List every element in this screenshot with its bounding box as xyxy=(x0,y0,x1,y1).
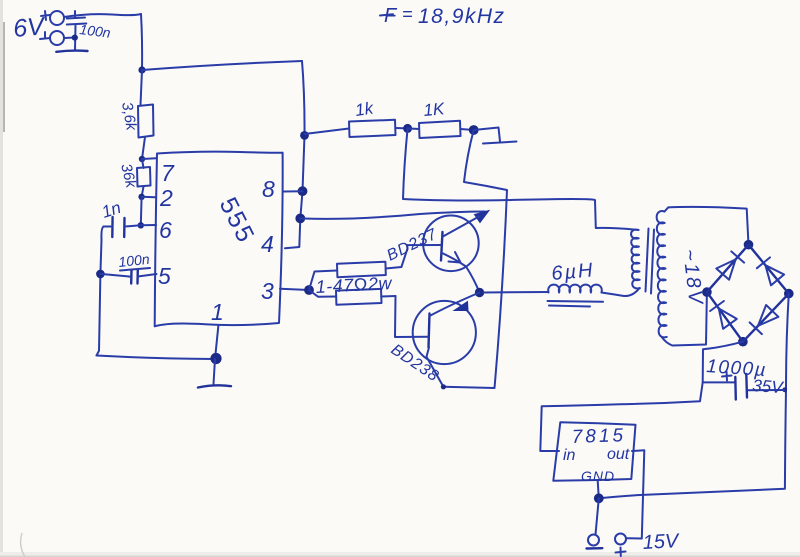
svg-text:6µH: 6µH xyxy=(551,259,596,285)
wire node J2 down long vertical to BD238 collector xyxy=(443,130,507,388)
svg-text:F: F xyxy=(384,5,398,27)
svg-text:100n: 100n xyxy=(118,251,151,270)
svg-text:15V: 15V xyxy=(642,530,680,554)
svg-text:35V: 35V xyxy=(752,376,785,397)
capacitor C3 100n plates xyxy=(131,270,138,284)
battery + terminal xyxy=(50,11,64,25)
battery minus (perp) sign xyxy=(40,32,50,39)
svg-text:1-47Ω2w: 1-47Ω2w xyxy=(315,273,393,297)
transistor Q2 BD238 circle xyxy=(413,301,476,364)
wire pin1 stem xyxy=(215,325,218,359)
wire node B to R2 xyxy=(142,159,144,168)
wire node N to ground terminal xyxy=(596,498,599,534)
wire pin6 xyxy=(141,224,156,226)
Q1 emitter arrow xyxy=(449,252,461,263)
Q1 emitter line xyxy=(442,253,480,293)
wire battery- to capacitor xyxy=(65,37,75,40)
wire secondary top to bridge top xyxy=(665,207,749,245)
C4 plus sign xyxy=(722,372,732,381)
resistor R5 bottom body xyxy=(336,289,382,305)
diode D2 arm top-right xyxy=(749,245,789,294)
wire pin8 xyxy=(284,190,303,192)
wire node J1 to R4 xyxy=(408,127,419,130)
diode D3 arm bottom-left xyxy=(707,292,743,342)
node E junction pin5 rail xyxy=(96,270,105,279)
wire bridge right down to cap junction and GND rail xyxy=(600,294,789,499)
L1 underline xyxy=(548,301,604,307)
diode D1 arm top-left xyxy=(707,245,749,292)
arrow head collector Q1 xyxy=(475,211,490,223)
svg-text:7815: 7815 xyxy=(571,425,626,448)
wire GND pin down xyxy=(598,481,599,499)
IC U1 555 body xyxy=(155,152,283,327)
battery - terminal xyxy=(50,31,64,45)
wire node L to inductor xyxy=(484,291,549,294)
stub wire right of J2 xyxy=(474,128,517,144)
wire node C to node D xyxy=(140,197,143,226)
R5 right links xyxy=(381,249,407,297)
Q2 emitter line xyxy=(430,293,480,317)
wire secondary bottom to bridge left xyxy=(662,292,707,345)
node J1 junction xyxy=(403,124,412,133)
title F = 18,9 kHz xyxy=(380,4,506,28)
svg-text:2: 2 xyxy=(159,185,173,211)
node B junction xyxy=(139,156,145,162)
node C junction pin2 xyxy=(138,194,144,200)
svg-text:1K: 1K xyxy=(423,99,446,120)
wire cap left down and to regulator in xyxy=(540,382,702,451)
svg-text:out: out xyxy=(607,446,630,463)
output + terminal xyxy=(615,534,626,545)
node D junction pin6 xyxy=(138,222,144,228)
node K junction pin3 xyxy=(304,285,314,295)
resistor R4 1k body xyxy=(419,121,461,138)
node M cap+ junction xyxy=(782,387,787,392)
wire bridge bottom to cap left xyxy=(703,342,743,383)
resistor R2 36k body xyxy=(137,167,151,187)
wire R4 to node J2 xyxy=(461,129,474,130)
wire R2 to node C xyxy=(142,187,144,197)
inductor L1 6uH coil xyxy=(548,285,602,293)
wire bottom rail to ground node xyxy=(97,356,216,360)
V+ bus vertical xyxy=(285,61,305,248)
node right xyxy=(784,289,794,299)
plus sign under + terminal xyxy=(616,548,626,557)
Q1 collector line xyxy=(442,217,479,238)
transformer T1 secondary coil xyxy=(657,211,667,337)
node F ground junction xyxy=(210,353,221,364)
svg-text:8: 8 xyxy=(262,176,275,202)
svg-text:in: in xyxy=(563,447,576,464)
wire node A down to R1 xyxy=(141,70,143,105)
transformer core lines xyxy=(646,229,655,294)
Q2 collector line xyxy=(427,347,444,387)
node left xyxy=(702,287,712,297)
wire node I to BD237 collector xyxy=(300,212,485,219)
wire node F to ground xyxy=(214,359,216,384)
node I junction pin4 xyxy=(295,214,305,224)
wire battery+ to top corner xyxy=(64,14,141,17)
ground bar under terminal xyxy=(587,547,603,550)
output ground terminal xyxy=(588,535,599,546)
capacitor C4 1000u plates xyxy=(735,374,747,400)
C4 right lead xyxy=(748,389,785,391)
wire inductor to primary bottom xyxy=(602,288,640,296)
resistor R5 top body 1-47ohm xyxy=(337,262,386,278)
Q1 base bar xyxy=(441,232,443,260)
resistor R3 1k body xyxy=(349,120,396,137)
Q1 base wire xyxy=(407,245,442,249)
Q2 base wire xyxy=(395,296,429,337)
transformer T1 primary coil xyxy=(631,230,640,289)
wire node J1 down to primary top rail xyxy=(403,128,639,230)
wire R3 to node J1 xyxy=(396,127,408,129)
node A junction xyxy=(138,66,145,73)
svg-text:7: 7 xyxy=(161,160,175,186)
transistor Q1 BD237 circle xyxy=(423,216,479,272)
C3 leads xyxy=(100,274,156,277)
node H junction pin8 xyxy=(298,186,308,196)
wire top corner down to junction A xyxy=(141,14,142,70)
resistor R1 3,6k body xyxy=(138,105,154,138)
wire node A to V+ bus top xyxy=(142,61,302,70)
junction on cap lead xyxy=(72,35,78,41)
svg-text:6: 6 xyxy=(159,217,172,243)
Q2 emitter arrow xyxy=(454,302,468,311)
C2 leads xyxy=(104,225,141,226)
svg-text:=: = xyxy=(402,4,413,24)
Q2 base bar xyxy=(429,314,430,348)
svg-text:3: 3 xyxy=(261,278,274,304)
capacitor C1 100n plates xyxy=(67,11,87,50)
regulator U2 7815 body xyxy=(553,422,635,481)
ground under C1 xyxy=(56,51,87,52)
svg-text:1: 1 xyxy=(211,299,224,325)
svg-text:18,9kHz: 18,9kHz xyxy=(418,5,506,28)
Q2 collector node xyxy=(441,384,446,389)
wire pin7 xyxy=(142,157,156,160)
wire C2 left down left rail xyxy=(97,227,104,356)
R5 left links xyxy=(309,271,337,297)
capacitor C2 1n plates xyxy=(112,217,124,237)
node T top xyxy=(744,240,754,250)
node J2 junction xyxy=(469,125,479,135)
wire pin2 xyxy=(142,196,155,199)
svg-text:5: 5 xyxy=(158,263,171,289)
node N GND junction xyxy=(594,493,604,503)
node L emitter junction xyxy=(475,288,484,297)
node G junction 1k feed xyxy=(300,131,309,140)
ground under 555 xyxy=(198,385,231,387)
node bottom xyxy=(738,337,748,347)
wire node G to R3 xyxy=(305,129,350,135)
wire out to +15V terminal xyxy=(627,450,645,538)
battery plus sign xyxy=(41,11,50,20)
wire R1 to node B xyxy=(142,137,145,159)
svg-text:4: 4 xyxy=(261,231,274,257)
wire pin3 xyxy=(280,289,309,290)
diode D4 arm bottom-right xyxy=(743,294,789,342)
